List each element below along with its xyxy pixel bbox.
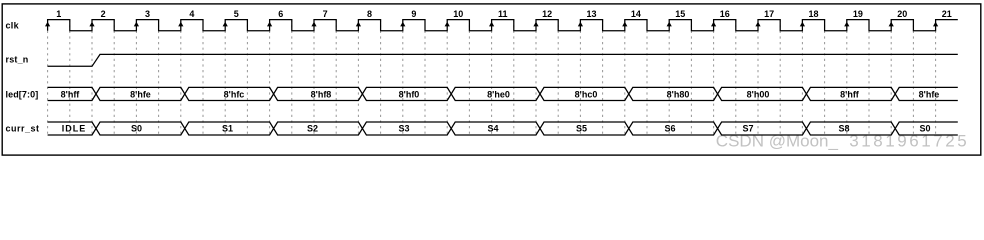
signal label curr_st — [6, 123, 40, 133]
svg-text:1: 1 — [56, 9, 61, 19]
svg-text:8'hc0: 8'hc0 — [575, 89, 598, 99]
curr_st value S2 — [307, 124, 318, 134]
bus led[7:0] waveform outline — [48, 87, 958, 100]
curr_st value S3 — [398, 124, 409, 134]
svg-text:8'hf8: 8'hf8 — [311, 89, 332, 99]
svg-text:2: 2 — [101, 9, 106, 19]
led value 8'hf8 — [311, 89, 332, 99]
svg-text:7: 7 — [323, 9, 328, 19]
svg-text:8'hf0: 8'hf0 — [399, 89, 420, 99]
svg-text:8'hfe: 8'hfe — [919, 89, 940, 99]
led value 8'h00 — [747, 89, 770, 99]
svg-text:8'hff: 8'hff — [61, 89, 81, 99]
curr_st value S1 — [222, 124, 233, 134]
frame border — [2, 4, 981, 155]
led value 8'hf0 — [399, 89, 420, 99]
svg-text:S3: S3 — [398, 124, 409, 134]
watermark CSDN — [716, 132, 967, 151]
bus curr_st waveform outline — [48, 122, 958, 135]
svg-text:10: 10 — [453, 9, 463, 19]
svg-text:3: 3 — [145, 9, 150, 19]
svg-text:20: 20 — [897, 9, 907, 19]
led value 8'he0 — [487, 89, 510, 99]
curr_st value S4 — [487, 124, 498, 134]
svg-text:9: 9 — [411, 9, 416, 19]
svg-text:8'he0: 8'he0 — [487, 89, 510, 99]
led value 8'hfc — [224, 89, 245, 99]
svg-text:S6: S6 — [664, 124, 675, 134]
svg-text:8'hfc: 8'hfc — [224, 89, 245, 99]
curr_st value S6 — [664, 124, 675, 134]
svg-text:13: 13 — [586, 9, 596, 19]
led value 8'hfe — [919, 89, 940, 99]
svg-text:curr_st: curr_st — [6, 123, 40, 133]
svg-text:S0: S0 — [919, 124, 930, 134]
clk rising-edge arrows — [45, 22, 938, 27]
wire rst_n waveform — [48, 54, 958, 66]
led value 8'hff — [840, 89, 860, 99]
svg-text:led[7:0]: led[7:0] — [6, 90, 39, 100]
svg-text:4: 4 — [189, 9, 194, 19]
curr_st value S7 — [742, 124, 753, 134]
led value 8'h80 — [667, 89, 690, 99]
svg-text:17: 17 — [764, 9, 774, 19]
svg-text:16: 16 — [720, 9, 730, 19]
curr_st value IDLE — [62, 124, 87, 134]
curr_st value S0 — [919, 124, 930, 134]
svg-text:IDLE: IDLE — [62, 124, 87, 134]
svg-text:clk: clk — [6, 21, 20, 31]
svg-text:5: 5 — [234, 9, 239, 19]
curr_st value S5 — [576, 124, 587, 134]
led value 8'hc0 — [575, 89, 598, 99]
svg-text:14: 14 — [631, 9, 641, 19]
svg-text:S5: S5 — [576, 124, 587, 134]
svg-text:8'hfe: 8'hfe — [130, 89, 151, 99]
svg-text:S0: S0 — [131, 124, 142, 134]
signal label rst_n — [6, 55, 29, 65]
svg-text:6: 6 — [278, 9, 283, 19]
svg-text:11: 11 — [498, 9, 508, 19]
svg-text:S7: S7 — [742, 124, 753, 134]
svg-text:rst_n: rst_n — [6, 55, 29, 65]
svg-text:8'hff: 8'hff — [840, 89, 860, 99]
curr_st value S8 — [838, 124, 849, 134]
svg-text:S2: S2 — [307, 124, 318, 134]
svg-text:12: 12 — [542, 9, 552, 19]
grid dashed time lines — [48, 20, 936, 135]
signal label clk — [6, 21, 20, 31]
svg-text:S1: S1 — [222, 124, 233, 134]
svg-text:8: 8 — [367, 9, 372, 19]
led value 8'hff — [61, 89, 81, 99]
svg-text:8'h80: 8'h80 — [667, 89, 690, 99]
svg-text:15: 15 — [675, 9, 685, 19]
curr_st value S0 — [131, 124, 142, 134]
signal label led[7:0] — [6, 90, 39, 100]
svg-text:19: 19 — [853, 9, 863, 19]
svg-text:S8: S8 — [838, 124, 849, 134]
wire clk waveform — [48, 20, 958, 31]
svg-text:8'h00: 8'h00 — [747, 89, 770, 99]
svg-text:21: 21 — [942, 9, 952, 19]
svg-text:18: 18 — [808, 9, 818, 19]
led value 8'hfe — [130, 89, 151, 99]
clock cycle numbers — [56, 9, 952, 19]
svg-text:S4: S4 — [487, 124, 498, 134]
